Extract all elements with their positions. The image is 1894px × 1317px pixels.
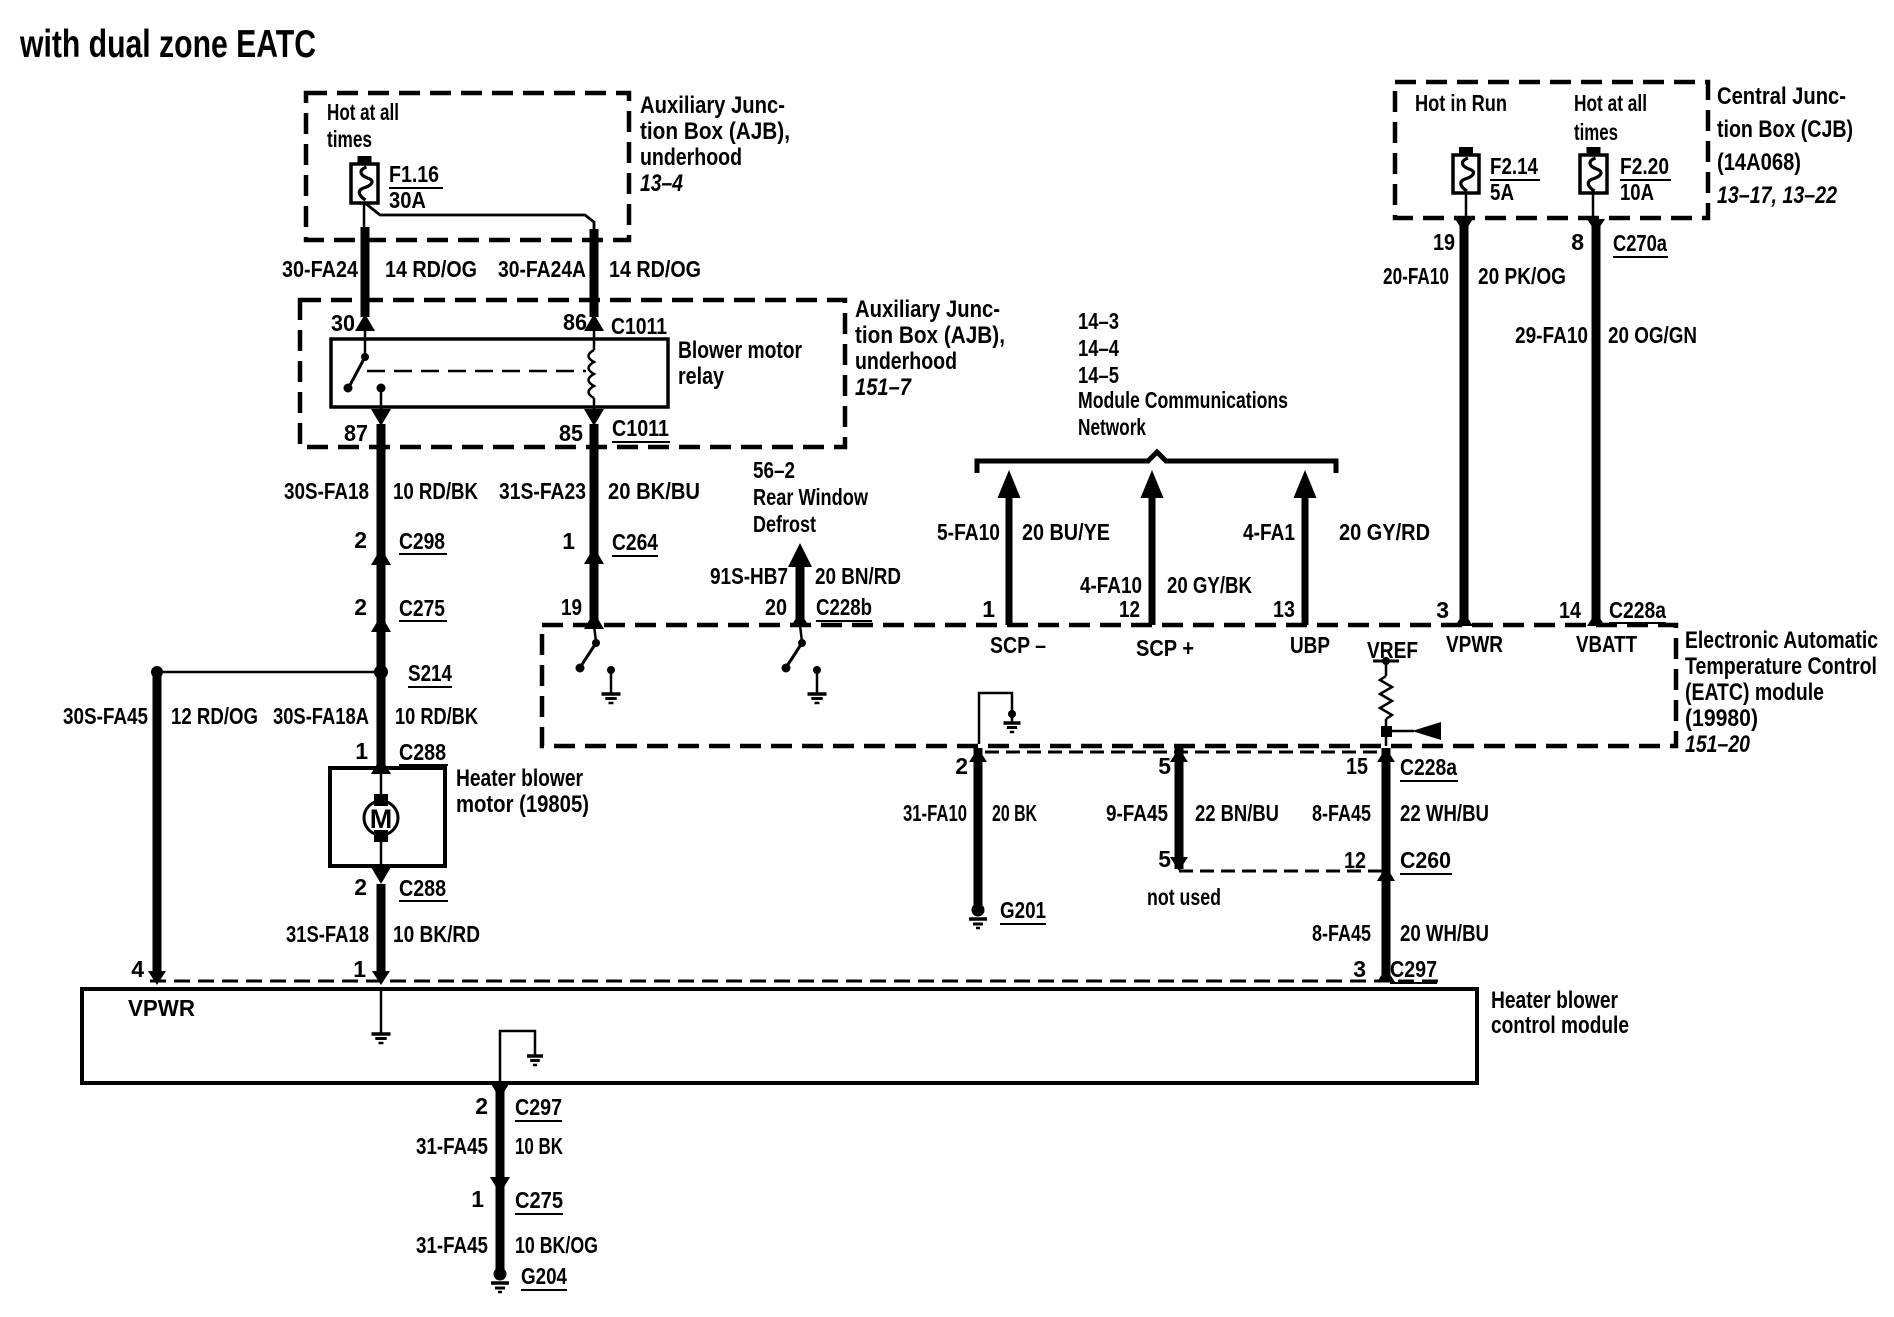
svg-text:C1011: C1011 [611,313,667,339]
svg-text:Auxiliary Junc-: Auxiliary Junc- [640,92,785,119]
svg-text:Heater blower: Heater blower [1491,987,1618,1014]
svg-text:underhood: underhood [640,144,742,171]
svg-text:SCP +: SCP + [1136,635,1194,661]
svg-text:C1011: C1011 [612,415,669,441]
svg-text:10 RD/BK: 10 RD/BK [395,703,478,729]
svg-text:14: 14 [1559,597,1581,623]
svg-text:C275: C275 [399,595,445,621]
svg-text:2: 2 [475,1093,488,1119]
svg-text:9-FA45: 9-FA45 [1106,800,1168,826]
svg-text:C270a: C270a [1613,230,1667,256]
svg-text:30-FA24: 30-FA24 [282,256,358,282]
svg-text:20 OG/GN: 20 OG/GN [1608,322,1697,348]
svg-text:1: 1 [471,1186,484,1212]
svg-text:30S-FA18A: 30S-FA18A [273,703,369,729]
svg-text:C264: C264 [612,529,658,555]
svg-text:F2.14: F2.14 [1490,153,1538,179]
svg-text:14–5: 14–5 [1078,362,1119,388]
svg-text:1: 1 [562,528,575,554]
svg-text:12: 12 [1344,847,1366,873]
svg-text:20 BU/YE: 20 BU/YE [1022,519,1110,545]
svg-text:20-FA10: 20-FA10 [1383,263,1449,289]
svg-text:Electronic Automatic: Electronic Automatic [1685,627,1878,654]
svg-text:motor (19805): motor (19805) [456,791,589,818]
svg-text:tion Box (AJB),: tion Box (AJB), [640,118,790,145]
svg-text:Hot in Run: Hot in Run [1415,90,1507,116]
svg-text:4: 4 [131,956,144,982]
svg-text:tion Box (AJB),: tion Box (AJB), [855,322,1005,349]
svg-text:12 RD/OG: 12 RD/OG [171,703,258,729]
svg-text:30-FA24A: 30-FA24A [498,256,586,282]
svg-text:31-FA45: 31-FA45 [416,1133,488,1159]
svg-text:times: times [327,126,372,152]
svg-text:85: 85 [559,420,583,446]
svg-text:5: 5 [1158,753,1171,779]
svg-text:C297: C297 [1390,956,1437,982]
svg-text:not used: not used [1147,884,1221,910]
svg-text:C297: C297 [515,1094,562,1120]
svg-text:20 WH/BU: 20 WH/BU [1400,920,1489,946]
svg-text:2: 2 [354,874,367,900]
svg-text:C228a: C228a [1400,754,1457,780]
svg-text:G204: G204 [521,1263,567,1289]
svg-text:2: 2 [354,594,367,620]
svg-text:G201: G201 [1000,897,1046,923]
svg-text:19: 19 [561,594,582,620]
svg-text:(19980): (19980) [1685,705,1758,732]
svg-text:56–2: 56–2 [753,457,795,483]
svg-text:14–4: 14–4 [1078,335,1119,361]
svg-text:1: 1 [355,738,368,764]
svg-text:20 GY/RD: 20 GY/RD [1339,519,1430,545]
svg-text:19: 19 [1433,229,1455,255]
svg-text:14 RD/OG: 14 RD/OG [609,256,701,282]
svg-text:20 BK: 20 BK [992,800,1037,826]
svg-text:2: 2 [354,527,367,553]
svg-text:1: 1 [982,596,995,622]
svg-text:C260: C260 [1400,847,1451,873]
svg-text:20 BN/RD: 20 BN/RD [815,563,901,589]
svg-text:relay: relay [678,363,725,390]
svg-text:20 BK/BU: 20 BK/BU [608,478,700,504]
svg-text:31-FA45: 31-FA45 [416,1232,488,1258]
svg-text:UBP: UBP [1290,632,1330,658]
svg-text:87: 87 [344,420,368,446]
svg-text:12: 12 [1119,596,1140,622]
svg-text:10 BK/OG: 10 BK/OG [515,1232,598,1258]
svg-text:4-FA1: 4-FA1 [1243,519,1295,545]
svg-text:13–4: 13–4 [640,170,683,197]
svg-text:151–20: 151–20 [1685,731,1751,758]
svg-text:F2.20: F2.20 [1620,153,1669,179]
svg-text:C228a: C228a [1609,597,1666,623]
svg-text:(14A068): (14A068) [1717,149,1801,176]
svg-text:C288: C288 [399,875,446,901]
svg-text:2: 2 [955,753,968,779]
svg-text:Hot at all: Hot at all [327,99,399,125]
svg-text:Temperature Control: Temperature Control [1685,653,1877,680]
svg-text:4-FA10: 4-FA10 [1080,572,1142,598]
svg-text:Defrost: Defrost [753,511,816,537]
svg-text:with dual zone EATC: with dual zone EATC [19,23,316,66]
svg-text:30S-FA18: 30S-FA18 [284,478,369,504]
svg-text:VBATT: VBATT [1576,631,1637,657]
svg-text:Hot at all: Hot at all [1574,90,1647,116]
svg-text:10 BK/RD: 10 BK/RD [393,921,480,947]
svg-text:14–3: 14–3 [1078,308,1119,334]
svg-text:3: 3 [1353,956,1366,982]
svg-text:5-FA10: 5-FA10 [937,519,1000,545]
svg-text:VREF: VREF [1367,637,1418,663]
svg-text:M: M [370,804,393,834]
svg-text:91S-HB7: 91S-HB7 [710,563,788,589]
svg-text:5: 5 [1158,846,1171,872]
svg-text:VPWR: VPWR [128,995,195,1021]
svg-text:22 WH/BU: 22 WH/BU [1400,800,1489,826]
svg-text:1: 1 [353,956,366,982]
svg-text:8-FA45: 8-FA45 [1312,800,1371,826]
svg-text:F1.16: F1.16 [389,161,439,187]
svg-text:tion Box (CJB): tion Box (CJB) [1717,116,1853,143]
svg-text:control module: control module [1491,1012,1629,1039]
svg-text:31S-FA18: 31S-FA18 [286,921,369,947]
svg-text:20: 20 [765,594,787,620]
svg-text:30A: 30A [389,187,426,213]
svg-text:C288: C288 [399,739,446,765]
svg-text:times: times [1574,119,1618,145]
svg-text:10 BK: 10 BK [515,1133,563,1159]
svg-text:(EATC) module: (EATC) module [1685,679,1824,706]
svg-text:29-FA10: 29-FA10 [1515,322,1588,348]
svg-text:Rear Window: Rear Window [753,484,868,510]
svg-text:5A: 5A [1490,179,1514,205]
svg-text:C298: C298 [399,528,445,554]
svg-text:15: 15 [1346,753,1368,779]
svg-text:14 RD/OG: 14 RD/OG [385,256,477,282]
svg-text:30: 30 [331,310,355,336]
svg-text:20 GY/BK: 20 GY/BK [1167,572,1252,598]
svg-text:31S-FA23: 31S-FA23 [499,478,586,504]
svg-text:3: 3 [1436,597,1449,623]
svg-text:13: 13 [1273,596,1295,622]
svg-text:SCP –: SCP – [990,632,1046,658]
svg-text:Heater blower: Heater blower [456,765,583,792]
svg-text:Auxiliary Junc-: Auxiliary Junc- [855,296,1000,323]
svg-text:10A: 10A [1620,179,1654,205]
svg-text:underhood: underhood [855,348,957,375]
svg-text:31-FA10: 31-FA10 [903,800,967,826]
svg-text:30S-FA45: 30S-FA45 [63,703,148,729]
svg-text:Blower motor: Blower motor [678,337,802,364]
svg-text:8: 8 [1571,229,1584,255]
svg-text:8-FA45: 8-FA45 [1312,920,1371,946]
svg-text:86: 86 [563,309,587,335]
svg-text:Network: Network [1078,414,1146,440]
svg-text:22 BN/BU: 22 BN/BU [1195,800,1279,826]
svg-text:10 RD/BK: 10 RD/BK [393,478,478,504]
svg-text:S214: S214 [408,660,452,686]
svg-text:151–7: 151–7 [855,374,912,401]
svg-text:VPWR: VPWR [1446,631,1503,657]
svg-text:Module Communications: Module Communications [1078,387,1288,413]
svg-text:C228b: C228b [816,594,872,620]
svg-text:Central Junc-: Central Junc- [1717,83,1846,110]
svg-text:C275: C275 [515,1187,563,1213]
svg-text:20 PK/OG: 20 PK/OG [1478,263,1566,289]
svg-text:13–17, 13–22: 13–17, 13–22 [1717,182,1838,209]
